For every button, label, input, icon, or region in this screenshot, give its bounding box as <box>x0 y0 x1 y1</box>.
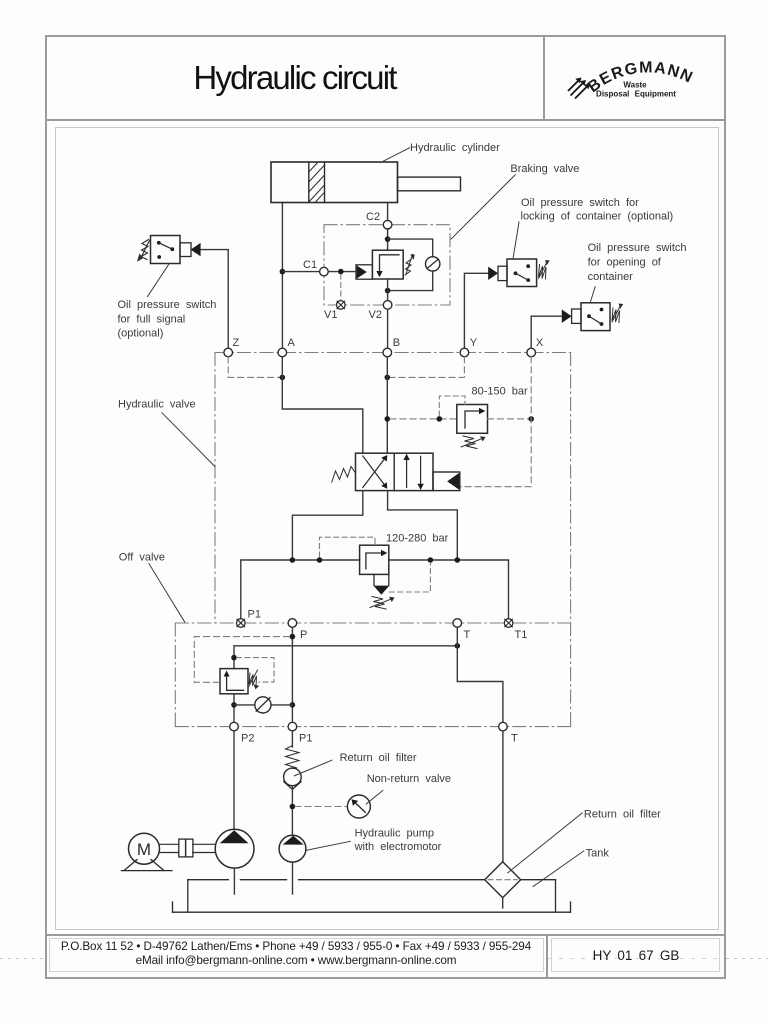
relief 80-150 outlet (dashed) <box>488 418 532 420</box>
svg-text:Hydraulic valve: Hydraulic valve <box>118 399 196 411</box>
pressure filter spring <box>286 746 300 769</box>
node V1 (plugged) <box>324 301 345 321</box>
label: Return oil filter (pump line) <box>294 752 416 776</box>
wire C2 to valve <box>387 229 389 250</box>
svg-text:Return oil filter: Return oil filter <box>584 809 661 821</box>
svg-text:T: T <box>511 733 518 745</box>
braking relief valve body <box>372 250 403 279</box>
oil pressure switch for full signal <box>151 236 201 264</box>
wire: cylinder left to node A <box>281 203 283 349</box>
svg-text:for opening of: for opening of <box>588 257 662 269</box>
pilot P to off relief (dashed) <box>194 637 289 683</box>
node Y <box>460 337 478 357</box>
relief valve 120-280 bar <box>360 545 390 595</box>
svg-text:Off valve: Off valve <box>119 552 165 564</box>
scan artifact dotted line <box>0 958 46 959</box>
label: Non-return valve <box>366 773 451 804</box>
wire B to valve port <box>386 357 388 453</box>
junction <box>338 269 344 275</box>
hydraulic valve enclosure (dash-dot) <box>215 353 571 727</box>
pump suction main <box>233 868 235 894</box>
svg-text:Y: Y <box>470 337 478 349</box>
wire switch to node Z <box>201 250 229 349</box>
hydraulic cylinder <box>271 162 461 203</box>
check valve <box>426 257 440 271</box>
node B <box>383 337 400 357</box>
wire relief to P2 <box>233 694 235 723</box>
node V2 <box>369 301 392 321</box>
off valve relief <box>220 669 248 694</box>
wire P2 to main pump <box>233 731 235 830</box>
oil pressure switch full signal: spring <box>137 240 150 262</box>
node P1 (plugged) <box>237 609 261 628</box>
junction <box>385 288 391 294</box>
svg-text:with electromotor: with electromotor <box>354 841 442 853</box>
node X <box>527 337 544 357</box>
label: Return oil filter (tank) <box>508 809 661 873</box>
svg-text:80-150 bar: 80-150 bar <box>472 386 529 398</box>
node P2 <box>230 722 255 744</box>
svg-text:Tank: Tank <box>586 848 610 860</box>
title <box>46 59 543 97</box>
relief 80-150 spring <box>461 436 486 449</box>
wire filter into tank <box>502 898 504 908</box>
braking valve spring <box>405 255 415 276</box>
wire to C1 <box>282 271 319 273</box>
label: Tank <box>533 848 609 887</box>
directional valve spring <box>332 467 356 483</box>
wire check valve to valve outlet <box>388 271 433 291</box>
label: Braking valve <box>451 163 579 239</box>
check valve off block <box>234 697 292 713</box>
wire T to return filter <box>502 731 504 862</box>
pilot Y to B (dashed) <box>387 357 464 378</box>
svg-text:V2: V2 <box>369 309 382 321</box>
motor shaft <box>160 844 216 852</box>
node T pump <box>499 722 518 744</box>
locking switch spring <box>539 260 550 279</box>
svg-text:Oil pressure switch for: Oil pressure switch for <box>521 197 639 209</box>
svg-text:Z: Z <box>233 337 240 349</box>
pump suction secondary <box>292 862 294 894</box>
non-return valve <box>347 795 370 818</box>
tank <box>173 880 571 913</box>
wire valve to P line <box>292 491 362 560</box>
svg-text:Non-return valve: Non-return valve <box>367 773 451 785</box>
svg-text:X: X <box>536 337 544 349</box>
wire valve to V2 <box>387 279 389 301</box>
relief 120-280 drain (dashed) <box>389 563 430 593</box>
svg-text:120-280 bar: 120-280 bar <box>386 533 449 545</box>
wire V2 to node B <box>387 309 389 348</box>
junction <box>385 236 391 242</box>
svg-text:Oil pressure switch: Oil pressure switch <box>588 242 687 254</box>
wire filter to pump <box>291 786 293 836</box>
unloader to T wire <box>234 646 457 669</box>
label: Oil pressure switch for locking of container (optional) <box>513 197 673 259</box>
pilot Z to A (dashed) <box>228 357 282 378</box>
node A <box>278 337 296 357</box>
pressure filter (return oil filter) <box>284 768 302 789</box>
svg-text:for full signal: for full signal <box>118 314 186 326</box>
wire Y to locking switch <box>464 273 488 348</box>
wire C1 to pilot <box>328 271 356 273</box>
directional valve solenoid <box>433 472 460 491</box>
pilot drain to V1 (dashed) <box>340 274 342 301</box>
wire valve to T line <box>388 491 458 560</box>
relief valve 80-150 bar <box>457 405 488 434</box>
svg-text:B: B <box>393 337 400 349</box>
svg-text:Oil pressure switch: Oil pressure switch <box>118 299 217 311</box>
electromotor M <box>121 833 172 870</box>
shaft coupling <box>179 839 193 857</box>
svg-text:P1: P1 <box>248 609 261 621</box>
node P <box>288 619 307 641</box>
main pressure gallery wire <box>241 560 509 619</box>
label: Hydraulic pump with electromotor <box>307 828 442 854</box>
node T <box>453 619 471 641</box>
wire: cylinder to C2 <box>387 203 389 221</box>
svg-text:C2: C2 <box>366 211 380 223</box>
relief 80-150 remote pilot (dashed) <box>439 396 465 416</box>
svg-text:C1: C1 <box>303 259 317 271</box>
footer address <box>46 940 546 953</box>
svg-text:P: P <box>300 629 307 641</box>
braking valve enclosure (dash-dot box) <box>324 225 450 305</box>
label: Oil pressure switch for opening of container <box>588 242 687 302</box>
svg-text:locking of container (optional: locking of container (optional) <box>521 211 674 223</box>
braking valve pilot <box>356 265 372 279</box>
wire A to valve port <box>282 357 363 453</box>
label: Hydraulic cylinder <box>381 142 500 162</box>
node Z <box>224 337 240 357</box>
wire P down <box>291 627 293 722</box>
svg-text:P1: P1 <box>299 733 312 745</box>
pilot line B to relief 80-150 (dashed) <box>390 418 457 420</box>
directional valve 4/2 <box>356 453 434 490</box>
hydraulic pump secondary <box>279 835 306 862</box>
label: Hydraulic valve <box>118 399 215 467</box>
label: Oil pressure switch for full signal (optional) <box>118 264 217 340</box>
svg-text:A: A <box>288 337 296 349</box>
drawing number <box>548 948 724 963</box>
pilot X to solenoid (dashed) <box>460 357 531 487</box>
node C1 <box>303 259 328 276</box>
return oil filter (diamond) <box>485 862 521 898</box>
svg-text:P2: P2 <box>241 733 254 745</box>
svg-text:V1: V1 <box>324 309 337 321</box>
off valve enclosure (dash-dot) <box>175 623 570 727</box>
node C2 <box>366 211 392 229</box>
pilot loop off relief (dashed) <box>237 658 275 683</box>
svg-text:Hydraulic pump: Hydraulic pump <box>355 828 434 840</box>
wire T down to tank port <box>457 627 503 722</box>
relief 120-280 spring <box>370 597 395 610</box>
svg-text:Braking valve: Braking valve <box>510 163 579 175</box>
svg-text:(optional): (optional) <box>118 328 164 340</box>
svg-text:Hydraulic cylinder: Hydraulic cylinder <box>410 142 500 154</box>
oil pressure switch opening of container <box>562 303 610 331</box>
wire P1 to filter <box>291 731 293 747</box>
oil pressure switch locking of container <box>488 259 536 287</box>
junction C1 branch <box>280 269 286 275</box>
svg-text:M: M <box>137 840 151 859</box>
junctions on gallery <box>290 557 296 563</box>
svg-text:Return oil filter: Return oil filter <box>340 752 417 764</box>
branch to non-return valve (dashed) <box>295 806 347 808</box>
BERGMANN logo <box>560 55 730 110</box>
node P1 pump <box>288 722 312 744</box>
hydraulic pump main <box>215 829 254 868</box>
label: Off valve <box>119 552 185 623</box>
relief 120-280 remote pilot (dashed) <box>320 537 376 557</box>
check valve branch wire <box>388 239 433 257</box>
svg-text:container: container <box>588 271 634 283</box>
node T1 (plugged) <box>504 619 527 641</box>
opening switch spring <box>612 304 623 323</box>
wire X to opening switch <box>531 316 562 348</box>
svg-text:T1: T1 <box>515 629 528 641</box>
svg-text:T: T <box>464 629 471 641</box>
off valve relief spring <box>249 670 259 689</box>
